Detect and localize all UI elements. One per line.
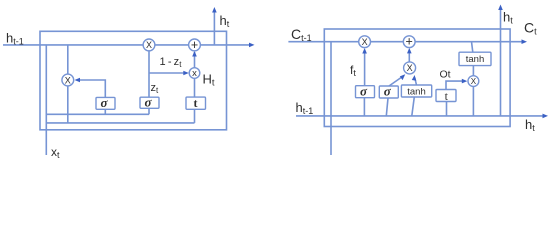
- wire sigma1 up to X1: [364, 51, 366, 86]
- multiplier X1 right: [359, 36, 371, 48]
- multiplier lower x: [189, 68, 200, 79]
- multiplier Ot x: [468, 76, 479, 87]
- svg-text:xt: xt: [51, 145, 60, 160]
- arrowhead lowerx into plus: [192, 51, 197, 57]
- svg-text:Ht: Ht: [203, 72, 215, 89]
- svg-text:t: t: [194, 96, 198, 110]
- gate sigma1 box: [96, 97, 115, 109]
- arrowhead t into Ot-x: [462, 79, 468, 84]
- svg-text:X: X: [471, 77, 477, 86]
- svg-text:+: +: [191, 38, 198, 52]
- arrowhead h_t up: [212, 7, 217, 13]
- svg-text:σ: σ: [144, 95, 152, 110]
- svg-text:1 - zt: 1 - zt: [160, 56, 183, 69]
- wire t-box down: [194, 109, 196, 123]
- multiplier X1: [143, 39, 155, 51]
- multiplier lower x right: [404, 62, 416, 74]
- wire Ot-x down: [472, 87, 474, 116]
- wire t-box to Ot-x: [446, 81, 463, 89]
- wire x_t vertical input: [45, 45, 47, 155]
- svg-text:+: +: [406, 35, 413, 49]
- tanh2 box: [459, 52, 491, 65]
- svg-text:σ: σ: [384, 84, 392, 99]
- arrowhead h line right: [543, 114, 549, 119]
- wire tanh2 top link: [472, 42, 473, 53]
- wire lowerx up to plus: [408, 51, 410, 62]
- arrowhead h line right: [249, 43, 255, 48]
- wire h(t-1) horizontal left: [3, 44, 250, 46]
- arrowhead into X2: [75, 78, 81, 83]
- svg-text:σ: σ: [360, 83, 368, 98]
- svg-text:σ: σ: [100, 95, 108, 110]
- svg-text:Ct-1: Ct-1: [291, 26, 312, 43]
- svg-text:Ot: Ot: [440, 69, 451, 81]
- GRU cell box: [40, 31, 227, 130]
- wire sigma1 down: [363, 98, 365, 116]
- svg-text:zt: zt: [151, 82, 160, 95]
- LSTM cell box: [324, 29, 510, 127]
- gate tanh box right: [401, 85, 431, 97]
- wire sigma1 up: [77, 80, 106, 97]
- wire sigma1 down: [104, 109, 106, 114]
- wire z-path vertical sigma2 to X1: [148, 50, 150, 97]
- wire tanh2 down to Ot-x: [472, 66, 474, 76]
- wire 1-z branch: [149, 72, 187, 74]
- arrowhead C line right: [522, 39, 528, 44]
- wire reset-path vertical through X2: [67, 45, 69, 123]
- wire h line bottom: [296, 115, 544, 117]
- svg-text:ht: ht: [525, 117, 535, 133]
- arrowhead 1-z into lowerx: [183, 71, 189, 76]
- arrowhead tanh into lowerx: [412, 75, 417, 81]
- wire feed line B: [46, 122, 194, 124]
- wire x input vertical right: [330, 42, 332, 155]
- svg-text:X: X: [407, 63, 413, 73]
- wire t-box down: [446, 102, 448, 116]
- arrowhead lowerx into plus: [407, 48, 412, 54]
- svg-text:ht: ht: [220, 13, 230, 29]
- wire h_t up output right: [500, 7, 502, 116]
- gate sigma1 box right: [356, 86, 375, 98]
- wire tanh slant to lowerx: [415, 78, 417, 86]
- svg-text:tanh: tanh: [407, 87, 426, 98]
- gate t box right: [436, 90, 456, 102]
- svg-text:X: X: [146, 40, 152, 50]
- adder plus right: [403, 36, 415, 48]
- svg-text:X: X: [362, 37, 368, 47]
- svg-text:ht: ht: [503, 10, 513, 26]
- gate sigma2 box right: [379, 86, 398, 98]
- gate t box: [186, 97, 206, 109]
- wire lowerx up to plus: [194, 52, 196, 68]
- svg-text:Ct: Ct: [524, 20, 537, 37]
- arrowhead sigma1 into X1: [362, 48, 367, 54]
- wire C line: [288, 41, 523, 43]
- svg-text:ht-1: ht-1: [6, 31, 24, 47]
- wire tanh down: [412, 97, 415, 116]
- svg-text:x: x: [192, 68, 197, 79]
- wire h_t up output: [213, 10, 215, 45]
- wire sigma2 slant to lowerx: [389, 76, 404, 87]
- gate sigma2 box: [140, 97, 159, 108]
- svg-text:tanh: tanh: [466, 54, 485, 65]
- multiplier X2: [62, 74, 74, 86]
- wire t-box up to lowerx: [194, 79, 196, 98]
- wire sigma2 down: [386, 98, 388, 116]
- adder plus: [189, 39, 201, 51]
- arrowhead sigma2 into lowerx: [400, 74, 405, 80]
- svg-text:ft: ft: [350, 63, 356, 78]
- wire feed line A: [46, 113, 149, 115]
- svg-text:ht-1: ht-1: [296, 100, 314, 116]
- arrowhead h_t up right: [498, 5, 503, 11]
- wire sigma2 down: [148, 108, 150, 114]
- svg-text:X: X: [65, 75, 71, 85]
